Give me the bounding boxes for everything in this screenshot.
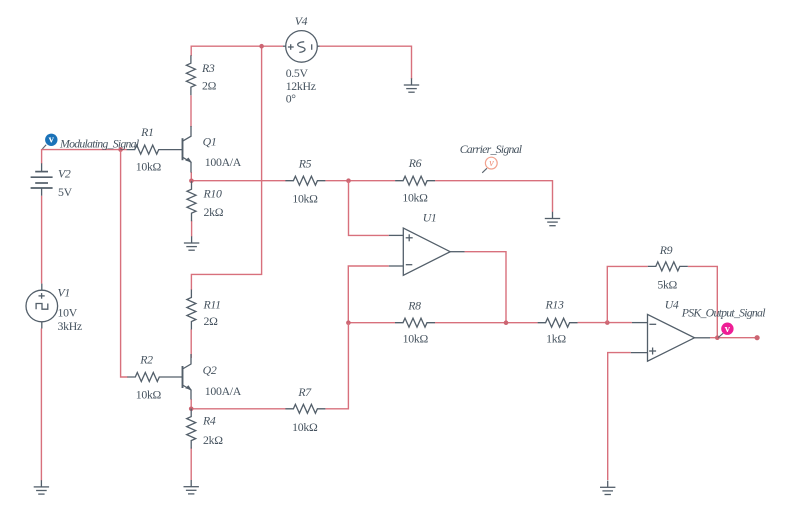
source V4 — [283, 14, 320, 106]
svg-text:R4: R4 — [202, 414, 216, 428]
svg-text:Q1: Q1 — [203, 135, 217, 149]
ground R10 — [184, 236, 199, 250]
wire R7 up to R8 rail — [325, 323, 348, 409]
resistor R9 — [648, 243, 688, 292]
junction U1 out R8 — [504, 320, 509, 325]
resistor R10 — [187, 181, 224, 221]
probe Modulating_Signal — [42, 134, 139, 151]
junction R5 R6 tap — [346, 178, 351, 183]
svg-text:V2: V2 — [58, 167, 71, 181]
svg-text:10kΩ: 10kΩ — [136, 387, 162, 401]
wire R3 to Q1 collector — [190, 95, 192, 127]
svg-text:0°: 0° — [286, 92, 297, 106]
svg-text:U4: U4 — [665, 298, 679, 312]
battery V2 — [31, 163, 73, 199]
svg-text:R9: R9 — [659, 243, 673, 257]
ground carrier — [545, 212, 560, 226]
resistor R7 — [285, 385, 325, 434]
wire U4 output — [710, 337, 757, 339]
wire down to R2 — [121, 150, 128, 377]
resistor R6 — [395, 156, 435, 204]
wire V4 right to ground — [320, 46, 412, 79]
wire Q1 emitter rail to R5 — [191, 172, 285, 181]
wire R4 to ground — [190, 448, 192, 481]
wire V2 to V1 — [41, 196, 43, 284]
junction Q1 emitter — [189, 179, 194, 184]
junction R8 left — [346, 320, 351, 325]
svg-text:10kΩ: 10kΩ — [136, 159, 162, 173]
svg-text:2kΩ: 2kΩ — [203, 433, 223, 447]
svg-text:2Ω: 2Ω — [204, 314, 219, 328]
svg-text:R3: R3 — [201, 61, 215, 75]
svg-text:100A/A: 100A/A — [205, 155, 242, 169]
wire top rail left (R3 top / junction to V4) — [191, 46, 283, 56]
svg-text:10kΩ: 10kΩ — [402, 191, 428, 205]
resistor R4 — [187, 409, 223, 449]
resistor R5 — [285, 156, 325, 205]
svg-text:R2: R2 — [139, 353, 153, 367]
wire R8 to R13 — [435, 322, 538, 324]
svg-text:PSK_Output_Signal: PSK_Output_Signal — [681, 306, 766, 320]
wire R10 to ground — [191, 221, 193, 237]
svg-text:R5: R5 — [298, 156, 312, 170]
wire Q2 emitter rail to R7 — [191, 399, 285, 409]
transistor Q1 — [183, 126, 242, 173]
ground V4 — [404, 78, 419, 92]
svg-text:2Ω: 2Ω — [202, 79, 217, 93]
svg-text:R6: R6 — [408, 156, 422, 170]
wire feedback up through R9 — [607, 266, 648, 322]
wire R13 to U4 minus — [578, 322, 632, 324]
svg-text:v: v — [49, 134, 55, 145]
svg-text:R1: R1 — [140, 125, 154, 139]
svg-text:100A/A: 100A/A — [205, 384, 242, 398]
svg-text:Q2: Q2 — [203, 363, 217, 377]
resistor R11 — [187, 290, 221, 330]
svg-text:3kHz: 3kHz — [58, 319, 82, 333]
svg-text:5kΩ: 5kΩ — [657, 278, 677, 292]
wire U1 minus input from feedback node — [348, 266, 389, 323]
wire U4 plus to ground — [608, 353, 631, 480]
resistor R13 — [538, 298, 578, 346]
svg-text:R11: R11 — [203, 297, 221, 311]
svg-text:v: v — [725, 324, 731, 335]
wire V1 to ground — [40, 329, 42, 481]
wire R9 right down to output — [688, 266, 718, 337]
ground R4 — [184, 480, 199, 494]
svg-text:R8: R8 — [407, 299, 421, 313]
wire U1 output down to R8 rail — [465, 252, 506, 323]
svg-text:10kΩ: 10kΩ — [292, 420, 318, 434]
svg-text:R13: R13 — [544, 298, 564, 312]
svg-text:v: v — [489, 158, 494, 169]
svg-text:V4: V4 — [295, 14, 308, 28]
resistor R8 — [395, 299, 435, 346]
wire R5 to R6 with tap — [325, 180, 395, 182]
ground U4 plus — [600, 481, 615, 495]
wire R8 rail left — [348, 322, 395, 324]
resistor R3 — [186, 55, 216, 95]
svg-text:U1: U1 — [423, 210, 437, 224]
junction Q2 emitter — [189, 407, 194, 412]
junction U4 output — [715, 335, 720, 340]
transistor Q2 — [183, 354, 242, 400]
svg-text:V1: V1 — [58, 286, 71, 300]
resistor R1 — [127, 125, 183, 173]
wire tap down to U1 plus input — [349, 181, 389, 236]
wire R11 to Q2 collector — [190, 329, 192, 358]
source V1 — [26, 284, 82, 333]
node Modulating wire — [42, 150, 127, 164]
junction U4 minus feedback — [605, 320, 610, 325]
svg-text:Carrier_Signal: Carrier_Signal — [460, 142, 523, 156]
svg-text:Modulating_Signal: Modulating_Signal — [59, 136, 140, 150]
svg-text:5V: 5V — [58, 185, 73, 199]
wire R6 to carrier ground — [435, 181, 552, 212]
junction top — [259, 44, 264, 49]
svg-text:R10: R10 — [203, 186, 223, 200]
svg-text:10kΩ: 10kΩ — [292, 191, 318, 205]
ground V1 — [34, 480, 49, 494]
svg-text:2kΩ: 2kΩ — [204, 205, 224, 219]
wire vertical from top junction down to R11 — [191, 46, 261, 290]
svg-text:10kΩ: 10kΩ — [403, 332, 429, 346]
op-amp U1 — [389, 210, 465, 275]
node output endpoint — [755, 335, 760, 340]
svg-text:10V: 10V — [58, 305, 78, 319]
svg-text:R7: R7 — [297, 385, 312, 399]
junction base split — [118, 147, 123, 152]
svg-text:1kΩ: 1kΩ — [546, 332, 566, 346]
probe Carrier_Signal — [460, 142, 523, 173]
resistor R2 — [127, 353, 182, 402]
probe PSK_Output_Signal — [681, 306, 766, 338]
op-amp U4 — [631, 298, 710, 362]
